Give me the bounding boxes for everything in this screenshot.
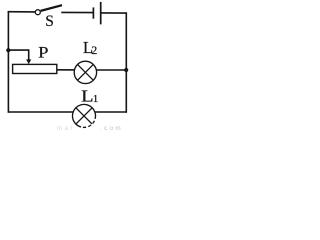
svg-text:1: 1 bbox=[93, 93, 99, 105]
svg-text:mat: mat bbox=[57, 125, 74, 132]
svg-text:.com: .com bbox=[100, 125, 123, 132]
svg-text:P: P bbox=[38, 45, 48, 62]
svg-text:2: 2 bbox=[91, 43, 97, 57]
svg-text:S: S bbox=[45, 13, 54, 30]
